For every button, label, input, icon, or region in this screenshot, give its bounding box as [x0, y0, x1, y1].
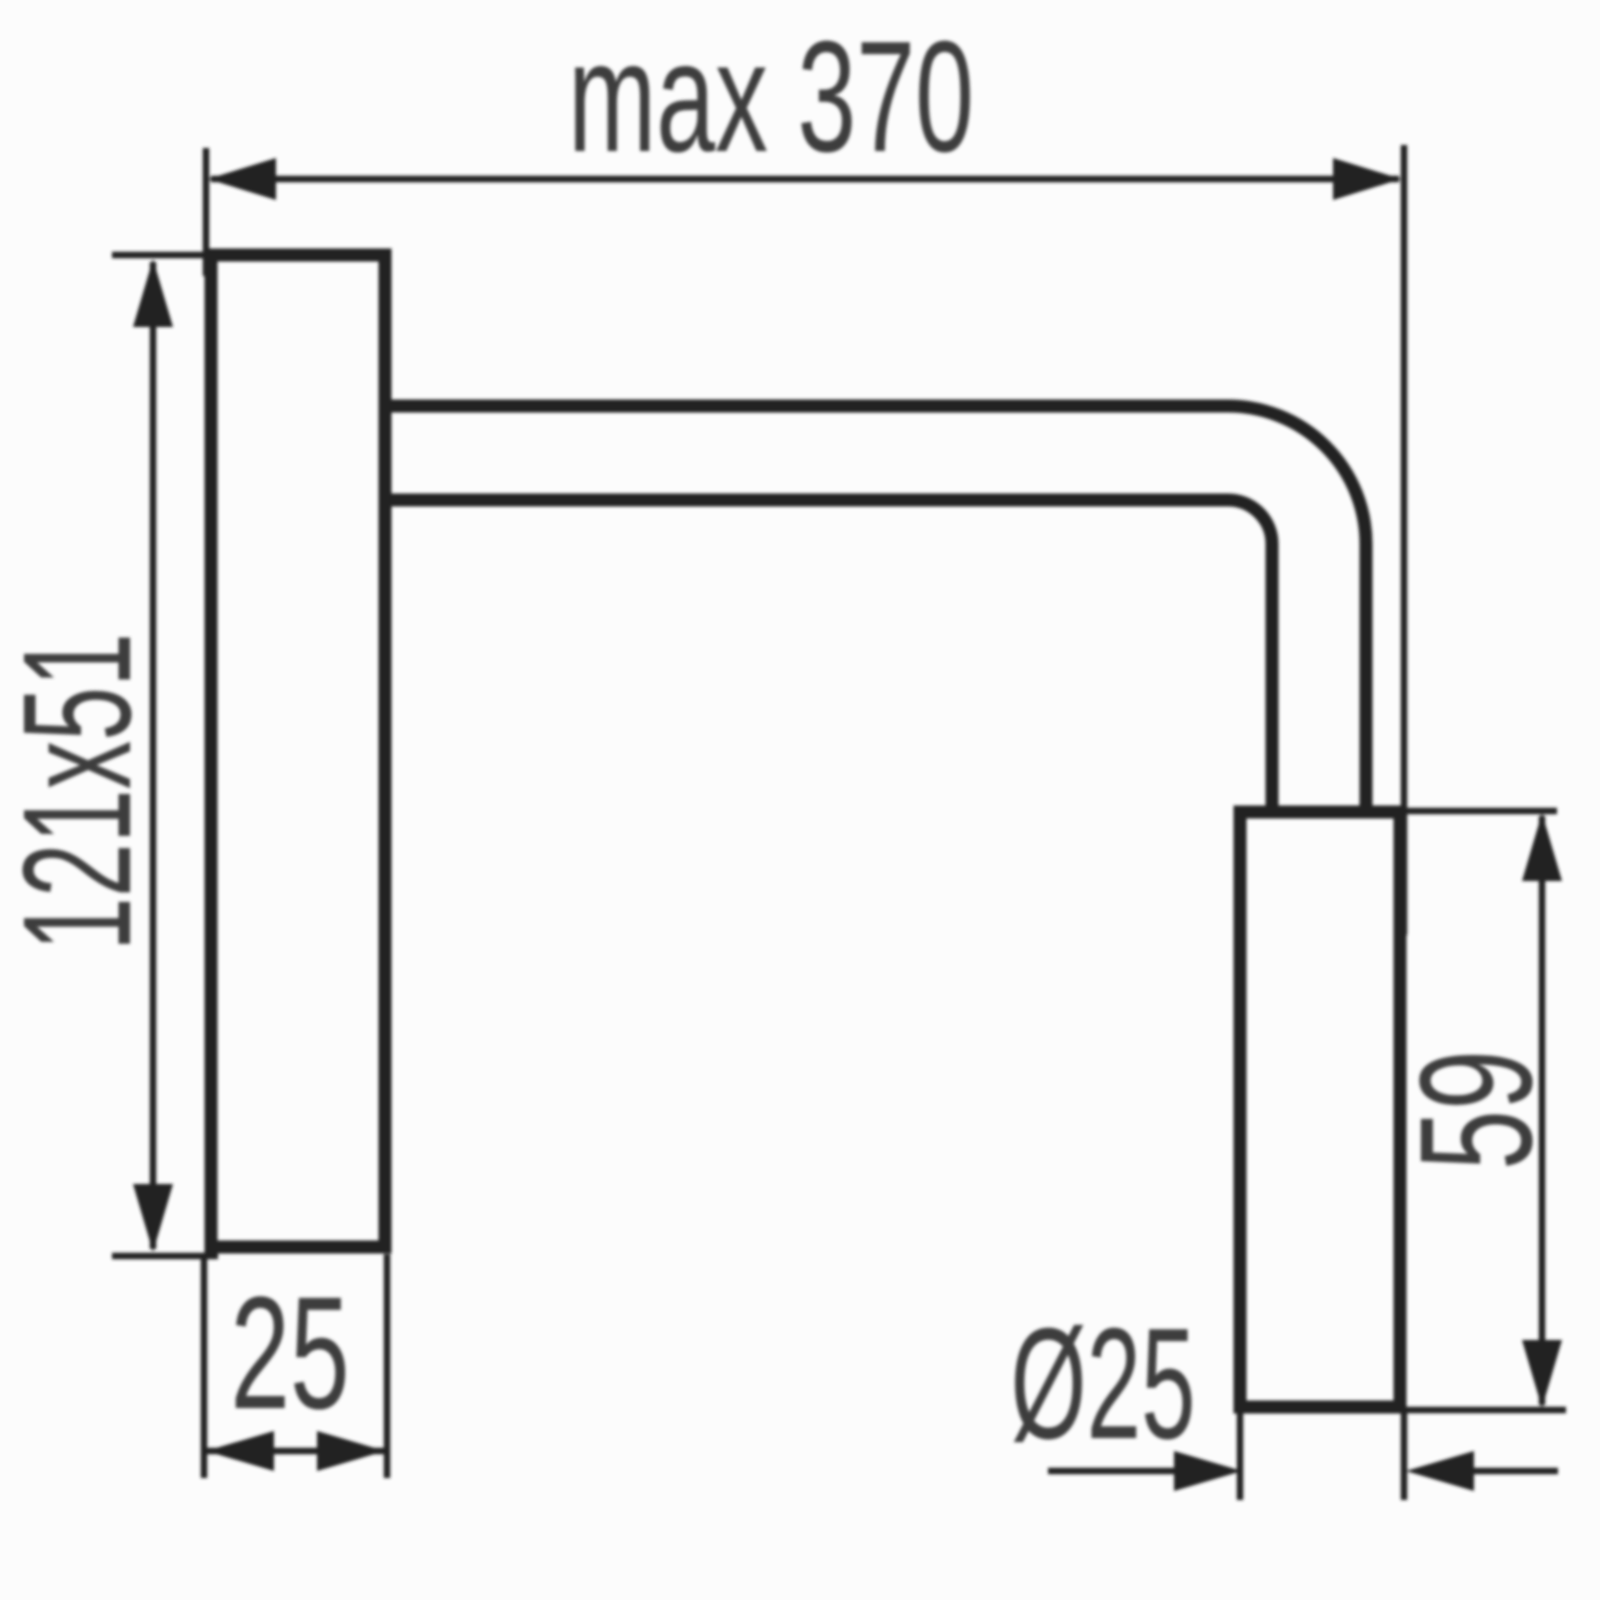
- arrowhead left max 370: [208, 158, 276, 200]
- svg-text:59: 59: [1386, 1050, 1565, 1170]
- dimension leader right of diameter 25: [1462, 1468, 1558, 1475]
- dimension line max 370: [211, 176, 1399, 183]
- extension line right of max 370: [1401, 145, 1408, 935]
- wall mounting plate: [211, 255, 385, 1247]
- arrowhead down 59: [1522, 1340, 1562, 1408]
- arrowhead right 25: [317, 1431, 385, 1471]
- svg-text:max 370: max 370: [568, 9, 974, 185]
- arrowhead right max 370: [1333, 158, 1401, 200]
- dimension leader left of diameter 25: [1048, 1468, 1185, 1475]
- arrowhead up 121x51: [133, 259, 173, 327]
- arrowhead down 121x51: [133, 1184, 173, 1252]
- dimension line 59: [1539, 816, 1546, 1405]
- extension line left of diameter 25: [1237, 1413, 1244, 1500]
- svg-text:Ø25: Ø25: [1010, 1295, 1195, 1472]
- extension line right of diameter 25: [1401, 1413, 1408, 1500]
- lamp head cylinder: [1240, 812, 1400, 1407]
- extension line right of 25: [384, 1254, 391, 1478]
- svg-text:25: 25: [230, 1263, 349, 1442]
- arm tube inner line with bend: [389, 500, 1272, 812]
- dimension line 25: [204, 1448, 387, 1455]
- arrowhead right diameter 25: [1406, 1451, 1474, 1491]
- arrowhead left 25: [206, 1431, 274, 1471]
- arrowhead left diameter 25: [1174, 1451, 1242, 1491]
- dimension line 121x51: [150, 262, 157, 1249]
- arrowhead up 59: [1522, 813, 1562, 881]
- extension line left of 25: [201, 1254, 208, 1478]
- extension line bottom of 59: [1403, 1407, 1566, 1414]
- extension line top of 121x51: [112, 252, 218, 259]
- extension line left of max 370: [203, 148, 210, 276]
- svg-text:121x51: 121x51: [0, 633, 164, 951]
- extension line top of 59: [1403, 808, 1557, 815]
- extension line bottom of 121x51: [112, 1253, 218, 1260]
- arm tube outer line with bend: [389, 406, 1366, 812]
